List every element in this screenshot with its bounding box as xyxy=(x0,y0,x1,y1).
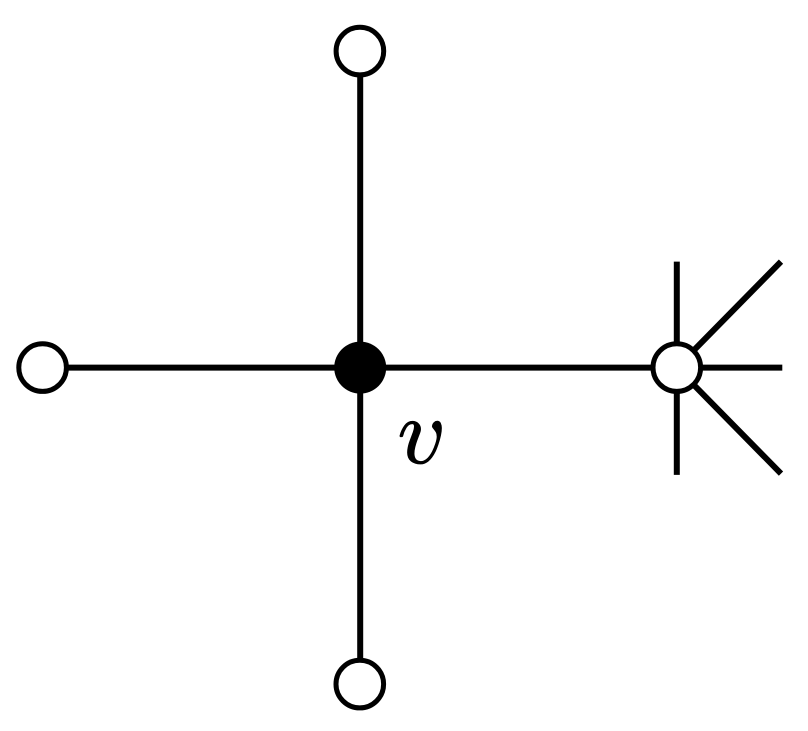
node v center vertex (filled) xyxy=(334,342,386,394)
wire edge v-right xyxy=(360,365,677,371)
wire edge v-left xyxy=(43,365,361,371)
node top vertex (open) xyxy=(336,27,384,75)
wire stub upper-right diagonal from right vertex xyxy=(677,262,781,368)
wire stub up from right vertex xyxy=(674,262,680,368)
wire stub right from right vertex xyxy=(677,365,783,371)
label v (math italic) xyxy=(400,421,441,464)
wire edge v-bottom xyxy=(357,368,363,684)
node right vertex (open) xyxy=(653,344,701,392)
wire edge v-top xyxy=(357,51,363,368)
wire stub lower-right diagonal from right vertex xyxy=(677,368,781,474)
node bottom vertex (open) xyxy=(336,660,384,708)
wire stub down from right vertex xyxy=(674,368,680,475)
node left vertex (open) xyxy=(19,344,67,392)
